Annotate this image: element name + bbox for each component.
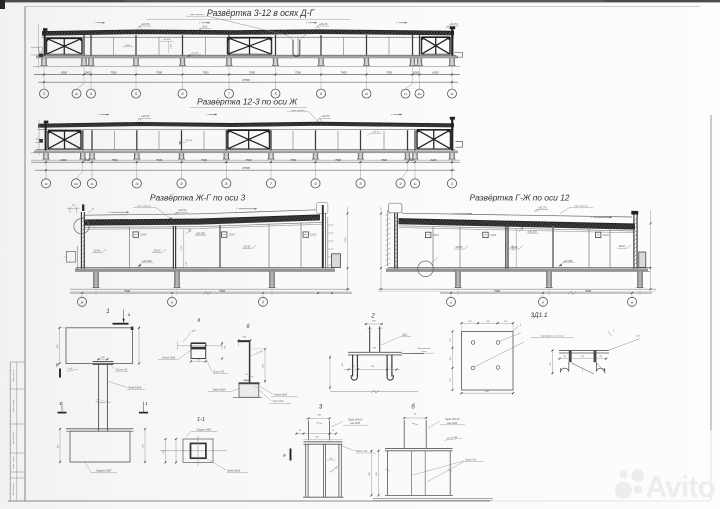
svg-text:Развёртка 12-3 по оси Ж: Развёртка 12-3 по оси Ж <box>197 97 298 107</box>
svg-text:7500: 7500 <box>112 158 118 162</box>
svg-text:7500: 7500 <box>156 70 162 74</box>
svg-text:7500: 7500 <box>335 158 341 162</box>
svg-text:7500: 7500 <box>249 70 255 74</box>
svg-text:11к: 11к <box>74 182 79 186</box>
svg-text:1Д11: 1Д11 <box>402 333 408 336</box>
svg-text:225 К1: 225 К1 <box>372 132 381 134</box>
svg-text:Шурупы ЖБУ: Шурупы ЖБУ <box>197 429 212 432</box>
svg-text:+26.270: +26.270 <box>178 210 187 212</box>
svg-text:5.545: 5.545 <box>344 237 347 243</box>
svg-text:+26.270: +26.270 <box>449 24 458 26</box>
svg-text:Монолитная: Монолитная <box>418 348 431 350</box>
svg-text:2: 2 <box>370 314 375 320</box>
svg-text:б: б <box>56 362 59 367</box>
svg-text:7500: 7500 <box>381 158 387 162</box>
svg-text:Торцефреза по месту: Торцефреза по месту <box>541 334 565 337</box>
svg-text:+26.320: +26.320 <box>528 229 538 233</box>
svg-text:120х9: 120х9 <box>603 235 610 237</box>
svg-text:225 К1: 225 К1 <box>92 251 101 253</box>
svg-text:шаг 1200: шаг 1200 <box>350 423 361 425</box>
svg-text:2000: 2000 <box>412 70 419 74</box>
svg-text:+26.270: +26.270 <box>319 24 328 26</box>
svg-text:225 К1: 225 К1 <box>152 251 161 253</box>
svg-text:9: 9 <box>320 92 322 96</box>
svg-text:Труба 530х9: Труба 530х9 <box>227 470 241 472</box>
svg-text:12: 12 <box>44 182 48 186</box>
svg-text:Лист t=12: Лист t=12 <box>212 371 225 374</box>
svg-text:7500: 7500 <box>246 158 252 162</box>
svg-text:7500: 7500 <box>124 289 130 293</box>
svg-text:Лист t=12: Лист t=12 <box>272 400 285 403</box>
svg-text:7500: 7500 <box>201 158 207 162</box>
svg-text:Лист t=12: Лист t=12 <box>355 450 368 453</box>
svg-text:отм. воронки: отм. воронки <box>291 110 305 112</box>
svg-text:д: д <box>262 300 264 304</box>
svg-text:Труба 140х10: Труба 140х10 <box>348 418 363 421</box>
svg-text:Подп. и дата: Подп. и дата <box>12 399 15 412</box>
svg-text:7500: 7500 <box>494 289 500 293</box>
svg-text:Инв. № подл.: Инв. № подл. <box>12 482 15 495</box>
svg-text:4: 4 <box>399 182 401 186</box>
svg-text:Подп. и дата: Подп. и дата <box>12 455 15 468</box>
svg-text:г: г <box>450 300 452 304</box>
svg-text:12: 12 <box>450 92 454 96</box>
svg-text:1-1: 1-1 <box>197 417 205 423</box>
svg-text:47500: 47500 <box>242 166 250 170</box>
svg-text:7500: 7500 <box>219 289 225 293</box>
svg-text:Труба 530х9: Труба 530х9 <box>128 388 142 390</box>
svg-text:е: е <box>542 300 544 304</box>
svg-text:10: 10 <box>135 182 139 186</box>
svg-text:Труба 530х9: Труба 530х9 <box>212 390 226 392</box>
svg-text:120х9: 120х9 <box>433 235 440 237</box>
svg-text:Лист t=12: Лист t=12 <box>464 458 477 461</box>
svg-text:5.100: 5.100 <box>181 245 183 251</box>
svg-text:+26.270: +26.270 <box>141 116 150 118</box>
svg-text:120х9: 120х9 <box>490 235 497 237</box>
svg-text:6200: 6200 <box>431 158 437 162</box>
svg-text:47500: 47500 <box>242 78 250 82</box>
svg-text:7500: 7500 <box>585 289 591 293</box>
svg-text:2000: 2000 <box>84 70 91 74</box>
svg-text:отм. воронки: отм. воронки <box>574 205 588 207</box>
svg-text:3Д1.1: 3Д1.1 <box>531 312 548 319</box>
svg-text:120х9: 120х9 <box>229 235 236 237</box>
svg-text:Развёртка Г-Ж по оси 12: Развёртка Г-Ж по оси 12 <box>470 192 570 202</box>
svg-text:2000: 2000 <box>83 158 90 162</box>
svg-text:Развёртка Ж-Г по оси 3: Развёртка Ж-Г по оси 3 <box>150 192 246 202</box>
svg-text:ж: ж <box>80 300 84 304</box>
svg-text:11к: 11к <box>417 92 422 96</box>
svg-text:6300: 6300 <box>61 70 67 74</box>
svg-text:7500: 7500 <box>203 70 209 74</box>
svg-text:Avito: Avito <box>646 471 716 504</box>
svg-text:225 К1: 225 К1 <box>242 247 251 249</box>
svg-text:7500: 7500 <box>341 70 347 74</box>
svg-text:+26.270: +26.270 <box>141 24 150 26</box>
svg-text:+22.320: +22.320 <box>142 259 152 263</box>
svg-text:Взам. инв. №: Взам. инв. № <box>12 368 15 381</box>
svg-text:225 К1: 225 К1 <box>454 247 463 249</box>
svg-text:+22.320: +22.320 <box>185 140 193 142</box>
svg-text:7500: 7500 <box>156 158 162 162</box>
svg-text:11: 11 <box>91 182 94 186</box>
svg-text:3.300: 3.300 <box>171 43 173 49</box>
svg-text:1: 1 <box>106 308 109 315</box>
svg-text:Лист t=12: Лист t=12 <box>115 368 128 371</box>
svg-text:отм. воронки: отм. воронки <box>190 14 204 16</box>
svg-text:7500: 7500 <box>295 70 301 74</box>
svg-text:+26.330: +26.330 <box>163 39 171 41</box>
svg-text:120х9: 120х9 <box>140 235 147 237</box>
svg-text:1: 1 <box>59 401 62 406</box>
svg-text:7500: 7500 <box>290 158 296 162</box>
svg-text:6300: 6300 <box>433 70 439 74</box>
svg-text:4: 4 <box>90 92 92 96</box>
svg-text:1: 1 <box>145 401 148 406</box>
svg-text:шаг 1200: шаг 1200 <box>447 423 458 425</box>
svg-text:7500: 7500 <box>111 70 117 74</box>
svg-text:отм. воронки: отм. воронки <box>137 206 151 208</box>
svg-text:+26.2: +26.2 <box>202 26 209 28</box>
svg-text:2005: 2005 <box>407 158 414 162</box>
svg-text:Труба 140х10: Труба 140х10 <box>445 418 460 421</box>
svg-text:+26.320: +26.320 <box>196 231 206 235</box>
svg-text:120х9: 120х9 <box>310 235 317 237</box>
svg-text:225 К1: 225 К1 <box>617 246 626 248</box>
svg-text:+22.320: +22.320 <box>191 53 199 55</box>
svg-text:ж: ж <box>630 300 634 304</box>
svg-text:9: 9 <box>180 182 182 186</box>
svg-text:е: е <box>171 300 173 304</box>
svg-text:11: 11 <box>404 92 407 96</box>
svg-text:7500: 7500 <box>386 70 392 74</box>
svg-text:Уголок 50х5: Уголок 50х5 <box>274 394 288 396</box>
svg-text:а: а <box>198 318 201 324</box>
svg-text:10: 10 <box>365 92 369 96</box>
svg-text:+26.270: +26.270 <box>321 116 330 118</box>
svg-text:Шурупы ЖБУ: Шурупы ЖБУ <box>97 469 112 472</box>
svg-text:+26.270: +26.270 <box>538 207 547 209</box>
svg-text:6300: 6300 <box>61 158 67 162</box>
svg-text:Инв. № дубл.: Инв. № дубл. <box>12 431 15 444</box>
svg-text:ж-та: ж-та <box>421 351 428 353</box>
svg-text:+22.320: +22.320 <box>563 259 573 263</box>
svg-text:Развёртка 3-12 в осях Д-Г: Развёртка 3-12 в осях Д-Г <box>207 8 315 18</box>
svg-text:Уголок 50х5: Уголок 50х5 <box>162 358 176 360</box>
svg-text:225 К1: 225 К1 <box>509 247 518 249</box>
